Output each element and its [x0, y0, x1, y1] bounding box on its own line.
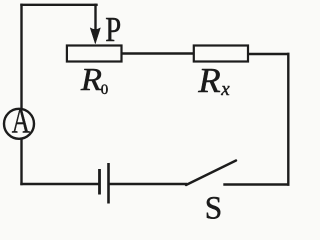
wire right rail — [287, 54, 289, 185]
wire bottom-left horizontal to battery — [22, 183, 99, 185]
potentiometer R0 body — [67, 46, 122, 62]
battery cell positive plate (long) — [107, 163, 110, 204]
switch S blade — [186, 161, 236, 186]
svg-text:P: P — [105, 9, 121, 48]
wire battery to switch — [111, 183, 187, 185]
wire Rx to right rail — [249, 53, 288, 55]
wire switch right contact to corner — [225, 183, 289, 185]
wire top-left rail (left vertical, top section) — [20, 5, 22, 108]
potentiometer slider arrow P — [90, 28, 100, 44]
svg-text:A: A — [12, 100, 31, 141]
svg-text:R: R — [197, 61, 221, 100]
wire slider drop — [94, 5, 96, 30]
svg-text:S: S — [205, 189, 222, 219]
wire R0 to Rx — [123, 52, 194, 54]
resistor Rx body — [194, 46, 248, 62]
svg-text:0: 0 — [101, 82, 109, 98]
ammeter A circle — [4, 109, 34, 139]
svg-text:R: R — [80, 62, 102, 98]
wire left rail lower section (ammeter to bottom corner) — [20, 141, 22, 185]
svg-text:x: x — [220, 79, 230, 100]
wire top horizontal — [22, 4, 97, 6]
battery cell negative plate (short) — [98, 169, 101, 195]
